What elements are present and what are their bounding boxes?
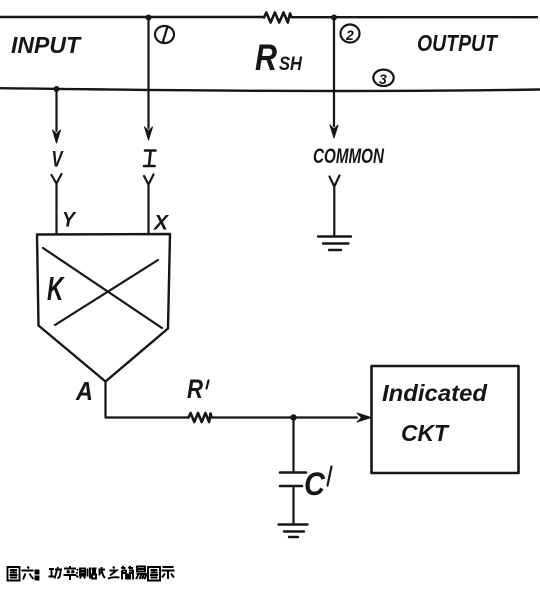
svg-text:X: X [153,212,170,235]
svg-text:3: 3 [379,71,387,87]
svg-text:A: A [75,376,93,406]
svg-text:INPUT: INPUT [11,32,82,58]
svg-text:COMMON: COMMON [313,145,385,168]
svg-text:R: R [255,37,277,78]
svg-text:2: 2 [345,27,354,43]
svg-text:OUTPUT: OUTPUT [417,30,499,56]
svg-text:R: R [187,374,203,404]
svg-text:Indicated: Indicated [382,380,488,406]
svg-text:V: V [52,147,65,172]
svg-text:CKT: CKT [401,420,450,446]
svg-text:C: C [304,466,326,502]
svg-text:SH: SH [279,54,303,75]
svg-text:Y: Y [62,209,77,232]
svg-text:K: K [47,270,65,307]
